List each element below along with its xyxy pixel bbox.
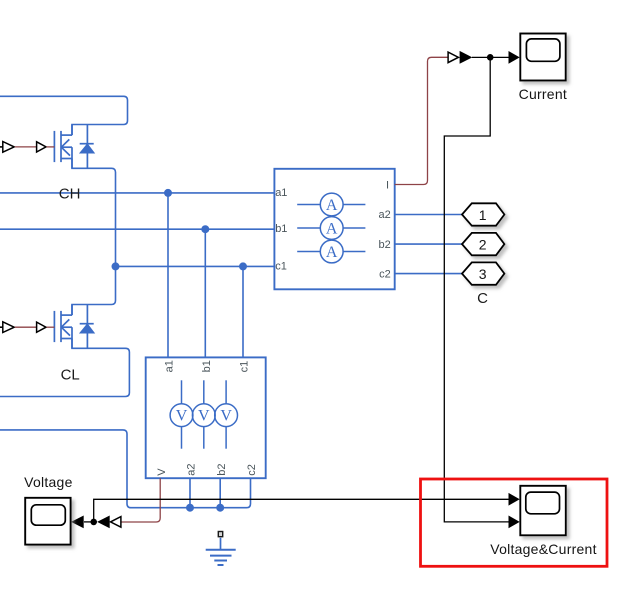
wire dark red I output up xyxy=(395,57,448,184)
wire CH drain loop to left edge xyxy=(0,96,128,135)
voltmeter V1 xyxy=(170,380,193,448)
svg-text:2: 2 xyxy=(479,236,487,252)
wire b2 down to bus xyxy=(219,478,221,508)
wire gate stub CH at left edge xyxy=(0,146,3,148)
svg-text:A: A xyxy=(326,221,338,238)
scope block Voltage xyxy=(25,498,70,545)
arrowhead into Voltage&Current input 1 xyxy=(509,493,520,506)
node A dot on line a1 xyxy=(164,189,172,197)
arrowhead into Current scope xyxy=(509,51,520,64)
svg-text:Current: Current xyxy=(519,86,567,102)
node dot bus a2 xyxy=(186,504,194,512)
arrowhead into Voltage scope xyxy=(71,516,84,529)
wire dark red V output xyxy=(121,478,160,522)
wire phase line c1 xyxy=(116,265,275,267)
svg-text:c2: c2 xyxy=(246,464,258,476)
wire gate stub CL at left edge xyxy=(0,326,3,328)
svg-text:Voltage: Voltage xyxy=(24,474,72,490)
wire drop b1 to voltmeter block xyxy=(204,229,206,357)
voltmeter V2 xyxy=(192,380,215,448)
svg-text:V: V xyxy=(220,408,232,425)
wire drop c1 to voltmeter block xyxy=(242,266,244,357)
wire a2 output to port 1 xyxy=(395,214,462,216)
node dot bus b2 xyxy=(216,504,224,512)
wire current signal to scope xyxy=(472,56,509,58)
diode D2 (CL body diode) xyxy=(80,305,95,349)
scope block Current xyxy=(520,34,565,81)
wire c2 output to port 3 xyxy=(395,273,462,275)
arrowhead into Voltage&Current input 2 xyxy=(509,516,520,529)
svg-text:C: C xyxy=(477,290,488,307)
wire branch up to Voltage&Current scope input 1 xyxy=(94,499,509,522)
transistor Q2 (CL MOSFET) xyxy=(54,305,72,349)
svg-text:b2: b2 xyxy=(379,239,391,251)
arrowhead hollow CL gate 2 xyxy=(37,322,46,332)
wire CH source down to node on phase line 3 and to CL drain xyxy=(72,159,116,316)
output port 1 hexagon xyxy=(462,203,504,225)
svg-text:3: 3 xyxy=(479,266,487,282)
svg-text:b1: b1 xyxy=(275,223,287,235)
wire branch down to Voltage&Current scope input 2 xyxy=(444,57,509,522)
svg-text:A: A xyxy=(326,244,338,261)
node dot on line b1 xyxy=(201,225,209,233)
svg-text:c1: c1 xyxy=(238,361,250,373)
wire a2 down to bus xyxy=(189,478,191,508)
svg-text:V: V xyxy=(198,408,210,425)
diode D1 (CH body diode) xyxy=(80,125,95,169)
wire CL source loop to left edge xyxy=(0,339,129,397)
svg-text:V: V xyxy=(176,408,188,425)
wire dark red CL gate to gate bar xyxy=(47,326,55,328)
voltage measurement block U2 xyxy=(146,357,266,478)
svg-text:b1: b1 xyxy=(201,360,213,372)
arrowhead hollow at I line end xyxy=(448,52,458,63)
node dot current branch xyxy=(487,54,494,61)
ammeter A2 xyxy=(297,217,365,240)
svg-text:I: I xyxy=(386,180,389,192)
wire dark red CH gate xyxy=(15,146,37,148)
svg-text:A: A xyxy=(326,197,338,214)
svg-text:CL: CL xyxy=(61,367,80,384)
output port 2 hexagon xyxy=(462,233,504,255)
wire drop a1 to voltmeter block xyxy=(167,193,169,358)
svg-text:b2: b2 xyxy=(216,463,228,475)
svg-text:Voltage&Current: Voltage&Current xyxy=(490,541,596,557)
arrowhead hollow CH gate 2 xyxy=(37,142,46,152)
svg-text:c2: c2 xyxy=(379,268,391,280)
ammeter A3 xyxy=(297,240,365,263)
transistor Q1 (CH MOSFET) xyxy=(54,125,72,169)
wire dark red CL gate xyxy=(15,326,37,328)
arrowhead hollow at V line end xyxy=(111,517,121,528)
svg-text:CH: CH xyxy=(59,186,81,203)
wire from left edge to bottom bus xyxy=(0,430,251,508)
arrowhead filled into current line xyxy=(460,51,473,64)
current measurement block U1 xyxy=(274,169,394,289)
arrowhead filled from V junction xyxy=(97,516,110,529)
node dot on line c1 right xyxy=(239,262,247,270)
highlight box red xyxy=(421,479,608,566)
wire dark red CH gate to gate bar xyxy=(47,146,55,148)
output port 3 hexagon xyxy=(462,262,504,284)
voltmeter V3 xyxy=(215,380,238,448)
wire b2 output to port 2 xyxy=(395,243,462,245)
arrowhead hollow CH gate 1 xyxy=(3,142,14,153)
ammeter A1 xyxy=(297,193,365,216)
arrowhead hollow CL gate 1 xyxy=(3,322,14,333)
scope block Voltage&Current xyxy=(520,486,566,536)
svg-text:a1: a1 xyxy=(164,360,176,372)
svg-text:c1: c1 xyxy=(275,261,287,273)
wire phase line a1 (CH line) xyxy=(0,192,274,194)
svg-text:a1: a1 xyxy=(275,187,287,199)
svg-text:a2: a2 xyxy=(379,209,391,221)
node dot on line c1 left xyxy=(112,262,120,270)
svg-text:a2: a2 xyxy=(186,463,198,475)
node dot voltage branch xyxy=(90,519,97,526)
svg-text:1: 1 xyxy=(479,207,487,223)
wire phase line b1 xyxy=(0,228,274,230)
wire voltage to scope xyxy=(84,521,97,523)
svg-text:V: V xyxy=(156,468,168,476)
ground symbol xyxy=(206,532,236,566)
